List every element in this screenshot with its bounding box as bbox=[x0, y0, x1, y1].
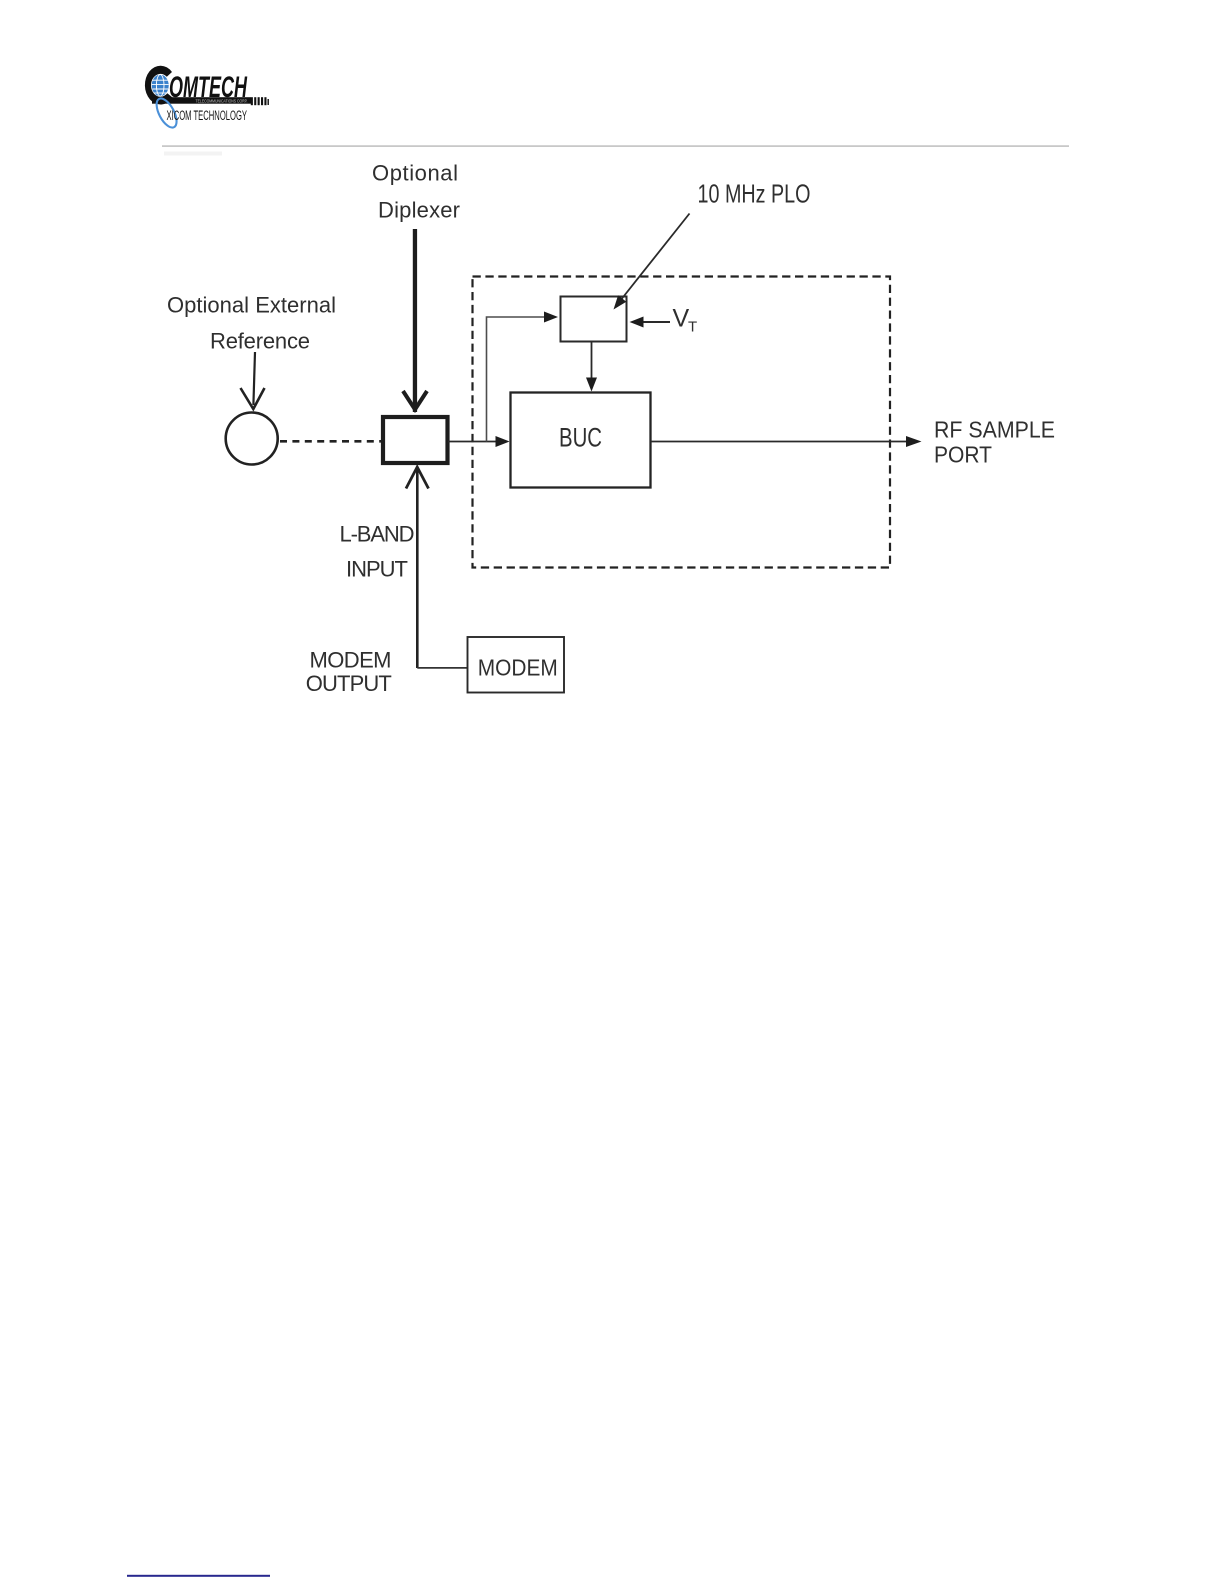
svg-text:TELECOMMUNICATIONS CORP.: TELECOMMUNICATIONS CORP. bbox=[196, 99, 248, 104]
svg-text:T: T bbox=[688, 319, 697, 336]
svg-text:Diplexer: Diplexer bbox=[378, 198, 460, 223]
svg-text:MODEM: MODEM bbox=[310, 648, 392, 673]
svg-text:PORT: PORT bbox=[934, 442, 992, 468]
svg-text:V: V bbox=[673, 304, 690, 332]
svg-text:Optional External: Optional External bbox=[167, 293, 336, 318]
svg-text:BUC: BUC bbox=[559, 423, 602, 453]
svg-text:RF SAMPLE: RF SAMPLE bbox=[934, 417, 1055, 443]
svg-text:OUTPUT: OUTPUT bbox=[306, 671, 392, 696]
svg-text:INPUT: INPUT bbox=[346, 557, 408, 582]
svg-text:Reference: Reference bbox=[210, 329, 310, 354]
svg-text:10 MHz PLO: 10 MHz PLO bbox=[698, 178, 811, 208]
svg-text:XICOM TECHNOLOGY: XICOM TECHNOLOGY bbox=[167, 108, 248, 123]
svg-text:L-BAND: L-BAND bbox=[340, 522, 415, 547]
svg-text:MODEM: MODEM bbox=[478, 655, 558, 681]
svg-text:Optional: Optional bbox=[372, 161, 458, 186]
